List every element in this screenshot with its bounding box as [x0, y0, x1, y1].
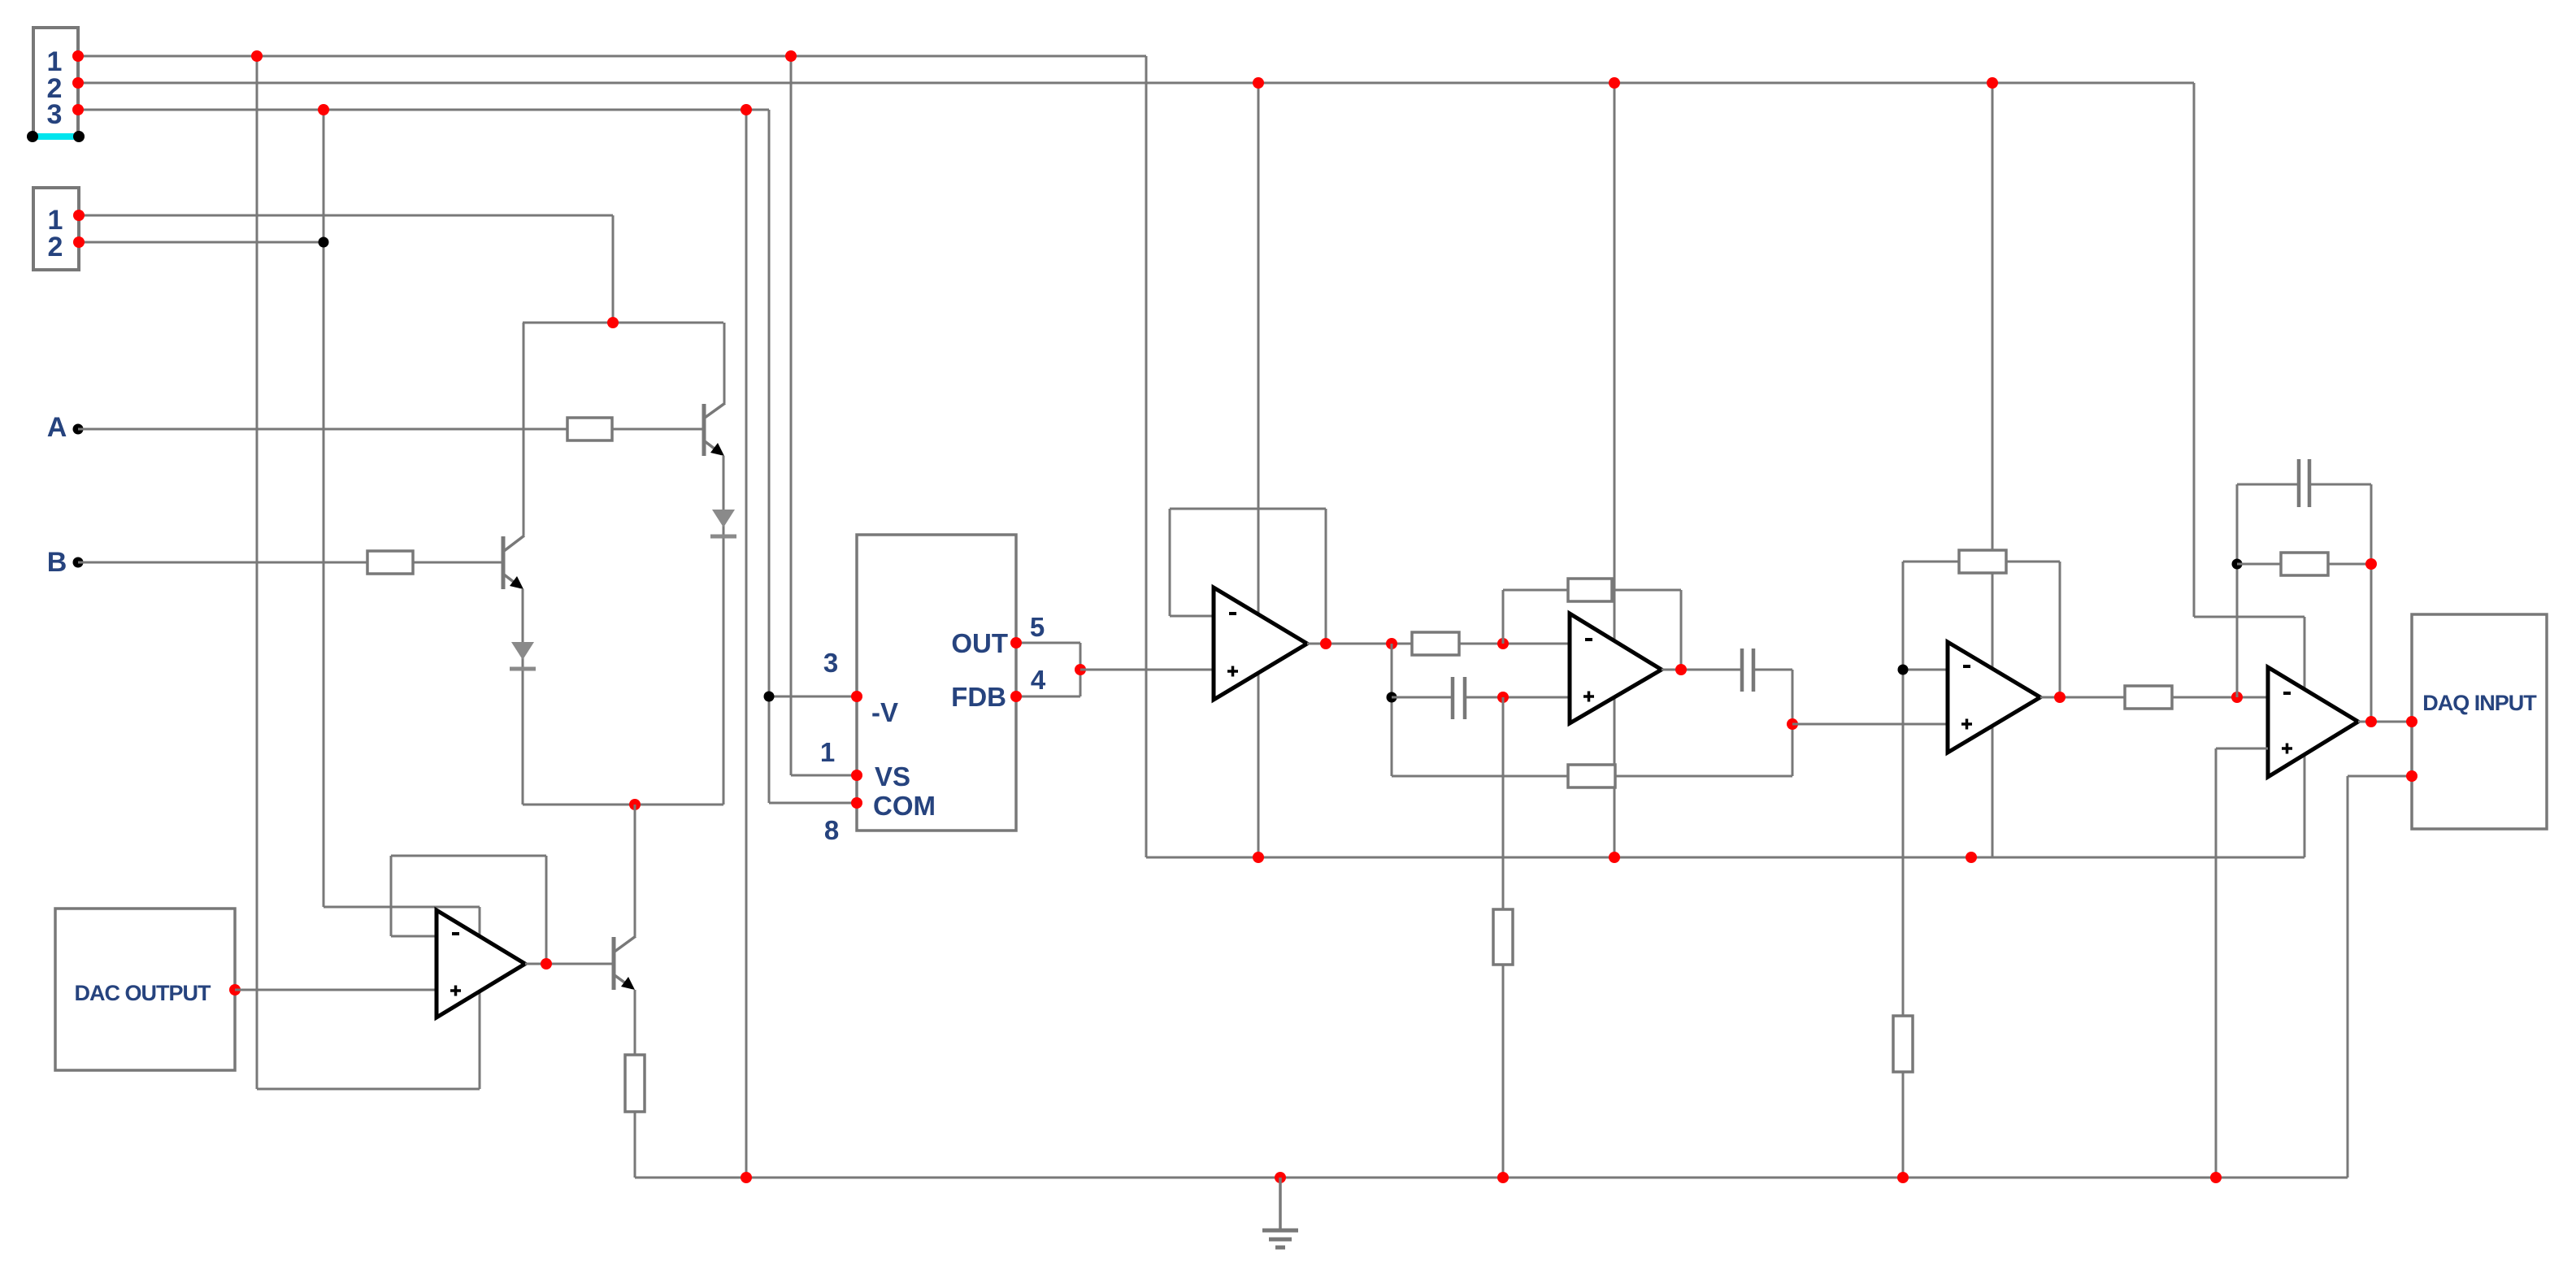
junction dot x2205 y891: [1787, 718, 1798, 730]
svg-text:5: 5: [1030, 612, 1045, 642]
wire Q2 emitter down x890: [723, 456, 725, 805]
wire FDB pin: [1016, 696, 1080, 698]
pin dot OUT: [1010, 637, 1022, 649]
junction dot net2 x2451: [1987, 77, 1998, 89]
junction dot net2 x1986: [1609, 77, 1620, 89]
resistor R-A3g (vertical): [1893, 1016, 1913, 1072]
wire A2 output y824 right: [1755, 669, 1792, 671]
junction dot rail x1575: [1275, 1172, 1286, 1183]
wire U2 feedback left x481: [390, 856, 393, 936]
wire COM pin: [769, 802, 857, 805]
wire vertical net3 end drop x946 to -V/COM: [768, 110, 771, 803]
wire vertical net1 branch x973 to VS: [790, 56, 793, 775]
current arrow on Q1 emitter: [510, 642, 536, 669]
wire A4 plus drop x2726: [2215, 748, 2218, 1178]
wire vertical net2 branch x1986: [1614, 83, 1616, 857]
junction dot net3 x398: [318, 104, 329, 115]
op-amp U2: [437, 910, 525, 1017]
wire Q1 emitter down x643: [522, 589, 524, 805]
wire vertical net3 branch at x918 to ground rail: [745, 110, 748, 1178]
wire A1 feedback into minus y758: [1170, 615, 1214, 618]
pin dot VS: [851, 770, 862, 781]
junction dot A2 plus node: [1497, 692, 1509, 703]
wire J2 pin1 drop x754: [612, 215, 615, 323]
connector J2 (2-pin): [33, 188, 79, 270]
wire OUT-FDB tie x1329: [1079, 643, 1082, 696]
junction dot A4 output: [2365, 716, 2377, 727]
junction dot x1329 output tap: [1075, 664, 1086, 675]
pin dot DAQ in2: [2406, 770, 2417, 782]
pin dot DAC out: [229, 984, 241, 996]
wire from J2 pin1: [79, 215, 613, 217]
pin dot J1-1: [72, 50, 84, 62]
wire node A to Q2 base: [78, 428, 702, 431]
wire A2 feedback top y726: [1503, 589, 1681, 592]
junction dot rail x2726: [2210, 1172, 2222, 1183]
wire A4 feedback top left y596: [2237, 484, 2297, 486]
wire U1 output to A1 plus input: [1080, 669, 1214, 671]
DAC OUTPUT box: [55, 909, 235, 1070]
wire lower path y955: [1392, 775, 1792, 778]
junction dot A3 output: [2054, 692, 2066, 703]
pin dot FDB: [1010, 691, 1022, 702]
svg-text:DAQ INPUT: DAQ INPUT: [2422, 691, 2537, 715]
wire A4 output y888: [2358, 721, 2412, 723]
junction dot A1 out x1712: [1386, 638, 1397, 649]
wire horizontal link y1116: [324, 906, 480, 909]
wire A1 feedback left x1439: [1169, 509, 1171, 616]
wire net2 from J1 pin2: [78, 82, 2194, 85]
wire horizontal link y1340: [257, 1088, 480, 1091]
pin dot -V: [851, 691, 862, 702]
wire A4 feedback right x2917: [2370, 484, 2373, 722]
svg-text:8: 8: [824, 815, 839, 845]
svg-text:FDB: FDB: [951, 682, 1006, 712]
wire vertical net1 end drop x1410: [1145, 56, 1148, 857]
svg-text:COM: COM: [873, 791, 936, 821]
junction dot A2 minus node: [1497, 638, 1509, 649]
wire A3 minus node vertical x2341: [1902, 562, 1905, 1178]
svg-text:3: 3: [47, 99, 63, 130]
junction dot rail x918: [741, 1172, 752, 1183]
wire A2 output y824 left: [1662, 669, 1740, 671]
junction dot top rail x754: [607, 317, 619, 328]
wire DAQ pin2 drop x2888: [2347, 776, 2349, 1178]
junction dot net3 x918: [741, 104, 752, 115]
wire A1 feedback top y626: [1170, 508, 1326, 510]
wire A4 feedback left x2752: [2236, 484, 2239, 697]
chip U1 body: [857, 535, 1016, 831]
wire OUT pin: [1016, 642, 1080, 644]
junction dot J2 pin2 to x398: [319, 237, 329, 248]
junction dot mid rail x2425: [1966, 852, 1977, 863]
junction dot net2 x1548: [1253, 77, 1264, 89]
wire A3 feedback right x2534: [2059, 562, 2061, 697]
cyan highlight segment at J1 bottom: [33, 133, 79, 140]
wire vertical link x590: [479, 907, 481, 1089]
svg-text:VS: VS: [875, 761, 910, 792]
junction dot A4 minus node: [2231, 692, 2243, 703]
wire node B to Q1 base: [78, 562, 502, 564]
wire net1 from J1 pin1: [78, 55, 1146, 58]
svg-text:2: 2: [48, 232, 63, 262]
wire Q1 collector up x644: [523, 323, 525, 536]
capacitor C2: [1742, 649, 1753, 692]
wire A3 minus stub y824: [1903, 669, 1948, 671]
transistor Q1: [503, 536, 524, 589]
resistor R12 (A1 to A2): [1412, 632, 1459, 655]
wire Q3 collector up x781: [634, 805, 636, 936]
transistor Q3: [614, 936, 636, 990]
wire A2 minus to feedback up: [1502, 590, 1505, 644]
wire bottom rail of pair y990: [523, 804, 723, 806]
wire DAQ pin2 y955: [2348, 775, 2412, 778]
wire vertical net2 drop x2835 to mid rail: [2304, 617, 2306, 857]
wire U2 feedback top y1053: [391, 855, 546, 857]
resistor R-A2g (vertical): [1493, 909, 1513, 965]
junction dot rail x1849: [1497, 1172, 1509, 1183]
junction dot x1712 y858: [1387, 692, 1397, 703]
op-amp A4: [2268, 667, 2358, 777]
pin dot J1-3: [72, 104, 84, 115]
wire vertical net2 end drop x2699: [2193, 83, 2196, 617]
junction dot mid rail x1548: [1253, 852, 1264, 863]
svg-text:4: 4: [1031, 665, 1046, 695]
wire net3 from J1 pin3: [78, 109, 769, 111]
op-amp A3: [1948, 642, 2040, 753]
resistor R-A: [567, 418, 612, 440]
wire U2 output y1186: [525, 963, 612, 965]
wire A3 output y858: [2040, 696, 2268, 699]
wire A2 plus node down to ground rail: [1502, 697, 1505, 1178]
svg-text:-V: -V: [871, 697, 898, 727]
pin dot DAQ in1: [2406, 716, 2417, 727]
wire A4 plus input y921: [2216, 748, 2268, 750]
node dot J1 bottom-left: [27, 131, 38, 142]
junction dot x946 on -V wire: [764, 692, 775, 702]
wire U2 feedback right x672: [545, 856, 548, 964]
wire x2205 vertical: [1792, 670, 1794, 776]
junction dot A4 fb left: [2232, 559, 2243, 570]
wire mid rail y1055: [1146, 857, 2304, 859]
pin dot J2-1: [73, 210, 85, 221]
ground symbol: [1262, 1178, 1298, 1247]
junction dot A1 out x1631: [1320, 638, 1331, 649]
resistor R34 (A3 to A4): [2125, 686, 2172, 709]
wire VS pin: [791, 774, 857, 777]
current arrow on Q2 emitter: [710, 510, 736, 536]
wire cap branch left y858: [1392, 696, 1451, 699]
wire from J2 pin2: [79, 241, 324, 244]
transistor Q2: [704, 403, 725, 456]
pin dot COM: [851, 797, 862, 809]
svg-text:1: 1: [820, 737, 835, 767]
op-amp A1: [1214, 588, 1307, 700]
wire vertical net1 branch at x316: [256, 56, 258, 1089]
wire ground rail y1449: [635, 1177, 2348, 1179]
resistor R-A2fb: [1568, 579, 1612, 601]
wire horizontal net2 jog y759: [2194, 616, 2304, 618]
junction dot A2 output: [1675, 664, 1687, 675]
capacitor C1: [1453, 677, 1465, 719]
junction dot A3 minus node: [1898, 665, 1909, 675]
wire top rail of pair y397: [523, 322, 723, 324]
junction dot A4 fb right: [2365, 558, 2377, 570]
resistor R-A2b (lower path): [1568, 765, 1615, 787]
node B dot: [73, 557, 84, 568]
pin dot J2-2: [73, 236, 85, 248]
svg-text:DAC OUTPUT: DAC OUTPUT: [75, 981, 211, 1005]
op-amp A2: [1570, 614, 1662, 723]
junction dot mid rail x1986: [1609, 852, 1620, 863]
wire vertical net3 branch at x398: [323, 110, 325, 907]
wire Q3 emitter down x781: [634, 990, 636, 1178]
DAQ INPUT box: [2412, 614, 2547, 829]
svg-text:A: A: [47, 412, 67, 443]
wire DAC to U2 plus y1218: [235, 989, 437, 991]
wire A2 feedback right x2068: [1680, 590, 1683, 670]
wire to A3 plus y891: [1792, 723, 1948, 726]
resistor R-B: [367, 551, 413, 574]
junction dot net1 x316: [251, 50, 263, 62]
wire A4 feedback mid y694: [2237, 563, 2371, 566]
resistor R-A3fb: [1959, 550, 2006, 573]
capacitor C4: [2299, 459, 2309, 507]
junction dot rail x2341: [1897, 1172, 1909, 1183]
junction dot bottom rail x781: [629, 799, 641, 810]
svg-text:OUT: OUT: [951, 628, 1008, 658]
pin dot J1-2: [72, 77, 84, 89]
svg-text:B: B: [47, 547, 67, 578]
wire Q2 collector up x891: [723, 323, 726, 403]
wire cap branch right y858: [1466, 696, 1570, 699]
junction dot U2 output: [541, 958, 552, 970]
wire A1 feedback right x1631: [1325, 509, 1327, 644]
connector J1 (3-pin): [33, 28, 78, 136]
wire A1 out down branch x1712: [1391, 644, 1393, 776]
svg-text:3: 3: [823, 648, 838, 678]
junction dot net1 x973: [785, 50, 797, 62]
node A dot: [73, 424, 84, 435]
wire A1 output y792: [1307, 643, 1570, 645]
wire -V pin: [769, 696, 857, 698]
wire vertical net2 branch x1548: [1258, 83, 1260, 857]
node dot J1 bottom-right: [73, 131, 85, 142]
wire vertical net2 branch x2451: [1992, 83, 1994, 857]
wire A4 feedback top right y596: [2311, 484, 2371, 486]
wire A3 feedback top y691: [1903, 561, 2060, 563]
wire U2 feedback into minus y1152: [391, 935, 437, 938]
resistor R-A4fb: [2281, 553, 2328, 575]
resistor R-Q3e (vertical): [625, 1055, 645, 1112]
